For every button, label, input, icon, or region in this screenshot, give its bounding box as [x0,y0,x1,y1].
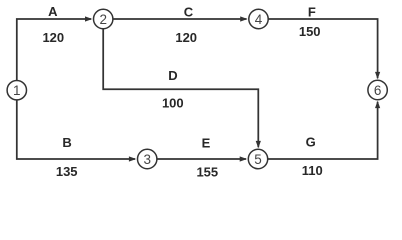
svg-text:6: 6 [374,83,382,98]
svg-text:E: E [202,136,211,151]
svg-text:D: D [168,68,177,83]
svg-text:G: G [306,134,316,149]
svg-text:B: B [62,135,71,150]
svg-text:1: 1 [13,83,21,98]
svg-text:150: 150 [299,24,321,39]
svg-text:F: F [308,5,316,20]
svg-text:C: C [184,5,194,20]
svg-text:120: 120 [175,30,197,45]
svg-text:2: 2 [99,12,107,27]
svg-text:135: 135 [56,164,78,179]
svg-text:155: 155 [196,164,218,179]
svg-text:4: 4 [255,12,263,27]
svg-text:3: 3 [143,152,151,167]
svg-text:100: 100 [162,95,184,110]
svg-text:120: 120 [42,30,64,45]
svg-text:5: 5 [254,152,262,167]
svg-text:110: 110 [302,163,323,178]
svg-text:A: A [48,4,58,19]
